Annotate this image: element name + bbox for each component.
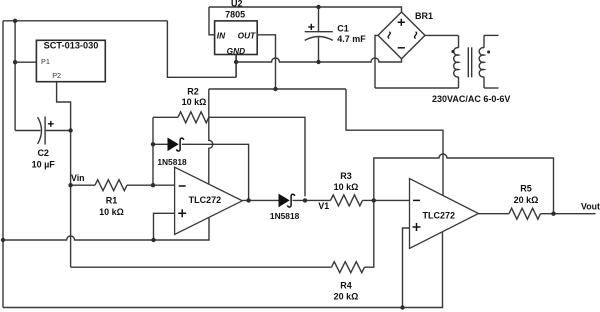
svg-text:10 kΩ: 10 kΩ [99, 207, 124, 217]
svg-text:10 kΩ: 10 kΩ [334, 182, 359, 192]
svg-text:20 kΩ: 20 kΩ [334, 291, 359, 301]
svg-text:SCT-013-030: SCT-013-030 [44, 41, 99, 51]
svg-text:TLC272: TLC272 [423, 211, 456, 221]
svg-text:Vout: Vout [581, 201, 600, 211]
svg-text:P2: P2 [52, 71, 61, 80]
svg-text:4.7 mF: 4.7 mF [337, 34, 366, 44]
svg-text:C1: C1 [337, 24, 349, 34]
svg-text:R3: R3 [340, 171, 352, 181]
svg-text:OUT: OUT [238, 30, 256, 40]
svg-text:BR1: BR1 [415, 11, 433, 21]
svg-text:10 µF: 10 µF [32, 159, 56, 169]
svg-text:R1: R1 [106, 196, 118, 206]
svg-text:TLC272: TLC272 [189, 195, 222, 205]
svg-text:10 kΩ: 10 kΩ [182, 97, 207, 107]
svg-text:230VAC/AC 6-0-6V: 230VAC/AC 6-0-6V [432, 94, 510, 104]
svg-text:IN: IN [217, 30, 226, 40]
svg-text:7805: 7805 [225, 10, 245, 20]
svg-text:Vin: Vin [71, 173, 85, 183]
svg-text:R4: R4 [340, 281, 352, 291]
svg-text:20 kΩ: 20 kΩ [514, 195, 539, 205]
svg-text:GND: GND [227, 46, 245, 56]
svg-text:1N5818: 1N5818 [157, 157, 187, 167]
svg-text:C2: C2 [37, 148, 49, 158]
svg-text:1N5818: 1N5818 [270, 211, 300, 221]
svg-text:R5: R5 [520, 184, 532, 194]
svg-text:R2: R2 [187, 87, 199, 97]
svg-text:V1: V1 [318, 201, 329, 211]
svg-text:P1: P1 [41, 57, 50, 66]
svg-text:U2: U2 [231, 0, 243, 8]
